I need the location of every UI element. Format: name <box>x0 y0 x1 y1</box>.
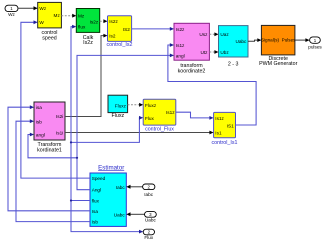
svg-text:Signal(s) Pulses: Signal(s) Pulses <box>261 37 296 42</box>
svg-text:Is2: Is2 <box>109 34 116 39</box>
wire IS1 to transform koordinate2 Is1z <box>168 43 256 125</box>
svg-text:Wz: Wz <box>39 6 46 11</box>
block control speed <box>38 2 62 41</box>
svg-text:2 - 3: 2 - 3 <box>228 61 239 67</box>
wire Is2 net kordinate1 to control_Is2 <box>65 34 108 117</box>
svg-text:Is1z: Is1z <box>176 43 185 48</box>
svg-text:control_Flux: control_Flux <box>145 126 174 132</box>
wire Uabc to PWM <box>248 38 261 42</box>
svg-text:Is2z: Is2z <box>109 19 118 24</box>
svg-text:Is1: Is1 <box>215 131 222 136</box>
svg-text:Fluxz: Fluxz <box>145 103 157 108</box>
block control_Is1 <box>212 112 238 145</box>
svg-text:Mz: Mz <box>54 13 61 18</box>
wire Speed net to control speed W <box>21 20 90 178</box>
block control_Flux <box>143 99 176 132</box>
svg-text:Is2z: Is2z <box>90 19 99 24</box>
wire Isa net <box>8 105 90 211</box>
inport 1 Wz <box>5 5 18 17</box>
svg-text:PWM Generator: PWM Generator <box>259 61 298 67</box>
svg-text:pulses: pulses <box>308 45 322 50</box>
block 2 - 3 <box>219 26 249 68</box>
svg-text:Flux: Flux <box>144 235 154 240</box>
wire Isb net <box>16 119 90 221</box>
svg-text:Uaz: Uaz <box>220 32 229 37</box>
svg-text:control_Is1: control_Is1 <box>212 140 238 146</box>
svg-text:W: W <box>39 20 44 25</box>
svg-text:Iabc: Iabc <box>116 185 126 190</box>
wire Usz to 2-3 (dashed) <box>209 32 218 36</box>
svg-text:Speed: Speed <box>92 176 106 181</box>
svg-text:Fluxz: Fluxz <box>115 104 127 109</box>
inport 2 Iabc <box>143 184 155 197</box>
inport 3 Uabc <box>145 212 157 223</box>
svg-text:Wz: Wz <box>8 12 15 17</box>
block Fluxz constant <box>108 95 128 119</box>
svg-text:IS1: IS1 <box>227 123 234 128</box>
outport 2 Flux <box>143 229 154 240</box>
svg-text:isb: isb <box>36 119 42 124</box>
svg-text:control_Is2: control_Is2 <box>107 42 133 48</box>
wire IS2 to transform koordinate2 <box>132 27 174 31</box>
svg-text:Is1z: Is1z <box>215 116 224 121</box>
svg-text:Ubz: Ubz <box>220 50 229 55</box>
block Estimator <box>90 164 126 226</box>
block Calk Is2z <box>76 9 99 46</box>
svg-text:Mz: Mz <box>78 14 85 19</box>
wire control_Flux Is1z to control_Is1 <box>176 112 214 120</box>
block control_Is2 <box>107 16 133 48</box>
svg-text:Flux: Flux <box>145 116 155 121</box>
svg-text:koordinate2: koordinate2 <box>178 69 206 75</box>
wire Fluxz to control_Flux (dashed) <box>128 103 144 107</box>
svg-text:angl: angl <box>176 53 185 58</box>
wire Mz to Calk Is2z (dashed) <box>61 14 76 18</box>
svg-text:Is2z: Is2z <box>176 27 185 32</box>
svg-text:Uabc: Uabc <box>235 39 247 44</box>
block Discrete PWM Generator <box>259 25 298 67</box>
svg-text:Angl: Angl <box>92 188 101 193</box>
block transform koordinate2 <box>174 23 209 74</box>
svg-text:IS2: IS2 <box>123 27 130 32</box>
svg-text:Is2i: Is2i <box>56 114 63 119</box>
wire inport3 Uabc to Estimator <box>126 212 144 216</box>
wire Is1 net kordinate1 to control_Is1 <box>65 131 214 135</box>
wire Utz to 2-3 (dashed) <box>209 50 218 54</box>
svg-text:Utz: Utz <box>200 50 208 55</box>
svg-text:isa: isa <box>36 105 42 110</box>
svg-text:flux: flux <box>92 199 100 204</box>
svg-text:Uabc: Uabc <box>114 212 126 217</box>
wire Angl net to transform blocks <box>28 54 174 190</box>
svg-text:kordinate1: kordinate1 <box>37 148 62 154</box>
svg-text:Isa: Isa <box>92 209 99 214</box>
svg-text:Usz: Usz <box>199 32 208 37</box>
svg-text:speed: speed <box>42 36 56 42</box>
svg-text:Estimator: Estimator <box>98 164 124 171</box>
wire PWM to pulses outport <box>295 38 310 42</box>
wire Wz to control speed <box>18 6 38 10</box>
block Transform kordinate1 <box>34 102 65 154</box>
svg-text:angl: angl <box>36 133 45 138</box>
svg-text:Fluxz: Fluxz <box>111 113 124 119</box>
wire Is2z to control_Is2 (dashed) <box>100 19 108 23</box>
svg-text:Is2z: Is2z <box>83 40 93 46</box>
svg-text:Isb: Isb <box>92 220 99 225</box>
wire inport2 Iabc to Estimator <box>126 185 142 189</box>
svg-text:Is1z: Is1z <box>166 110 175 115</box>
wire flux net <box>70 25 143 234</box>
svg-text:Uabc: Uabc <box>145 218 157 223</box>
svg-text:Iabc: Iabc <box>144 192 154 197</box>
outport 1 pulses <box>308 37 322 50</box>
svg-text:Is1i: Is1i <box>56 130 63 135</box>
svg-text:flux: flux <box>78 24 86 29</box>
